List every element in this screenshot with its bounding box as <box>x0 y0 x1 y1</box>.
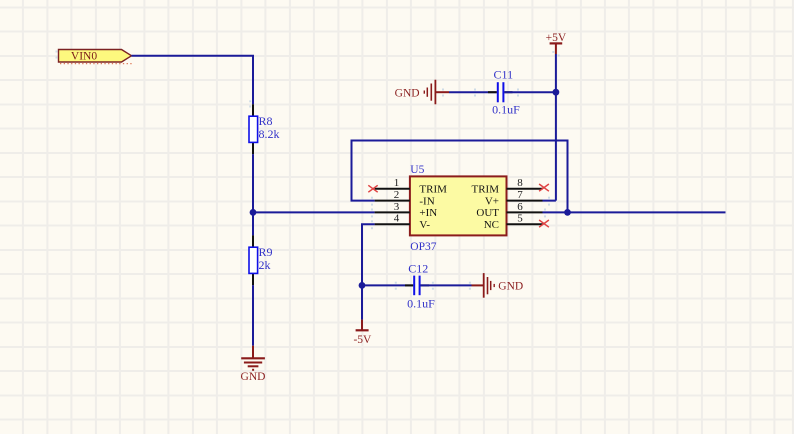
wire C12 to ground <box>421 284 472 286</box>
svg-text:OP37: OP37 <box>410 241 436 253</box>
no-connect X pin 1 <box>368 185 377 192</box>
wire node A to +IN <box>253 211 375 213</box>
pin 1 TRIM left <box>375 177 448 195</box>
svg-text:TRIM: TRIM <box>472 184 500 196</box>
resistor R8 <box>249 104 280 154</box>
wire node A to R9 <box>252 212 254 235</box>
power +5V <box>546 32 567 54</box>
svg-text:R8: R8 <box>259 114 273 128</box>
pin 4 V- <box>375 213 431 231</box>
wire V- to -5V rail <box>362 224 375 319</box>
svg-text:V+: V+ <box>485 195 499 207</box>
svg-text:8.2k: 8.2k <box>259 127 280 141</box>
no-connect X pin 5 <box>539 220 549 227</box>
grid snap markers <box>56 51 560 290</box>
pin 8 TRIM right <box>472 177 543 195</box>
capacitor C12 <box>405 262 435 311</box>
svg-text:VIN0: VIN0 <box>71 51 97 63</box>
svg-text:5: 5 <box>517 213 523 225</box>
svg-text:7: 7 <box>517 189 523 201</box>
svg-text:2: 2 <box>394 189 400 201</box>
svg-text:6: 6 <box>517 201 523 213</box>
power ground GND at C11 <box>395 80 449 105</box>
junction C11 to +5V rail <box>553 89 560 96</box>
wire GND to C11 <box>449 91 497 93</box>
pin 2 -IN <box>375 189 435 207</box>
svg-text:OUT: OUT <box>476 207 499 219</box>
wire -5V rail to C12 <box>362 284 413 286</box>
wire port to R8 <box>132 56 254 104</box>
svg-text:0.1uF: 0.1uF <box>492 102 520 116</box>
wire +5V rail to V+ <box>543 54 556 201</box>
port VIN0 <box>59 50 134 64</box>
no-connect X pin 8 <box>539 184 549 191</box>
svg-text:2k: 2k <box>259 258 271 272</box>
wire R9 to ground <box>252 285 254 346</box>
svg-text:NC: NC <box>484 219 499 231</box>
svg-text:U5: U5 <box>410 164 424 176</box>
svg-text:+IN: +IN <box>419 207 437 219</box>
pin 3 +IN <box>375 201 438 219</box>
pin 6 OUT <box>476 201 542 219</box>
svg-text:-5V: -5V <box>353 334 372 346</box>
svg-text:R9: R9 <box>259 245 273 259</box>
wire feedback -IN to OUT <box>352 141 568 213</box>
svg-text:1: 1 <box>394 177 400 189</box>
svg-text:GND: GND <box>498 281 523 293</box>
wire OUT to right <box>543 211 726 213</box>
svg-text:V-: V- <box>419 219 430 231</box>
svg-text:3: 3 <box>394 201 400 213</box>
svg-text:C11: C11 <box>494 68 514 82</box>
svg-text:4: 4 <box>394 213 400 225</box>
node A junction <box>250 209 257 216</box>
svg-text:0.1uF: 0.1uF <box>407 297 435 311</box>
svg-text:TRIM: TRIM <box>419 184 447 196</box>
op-amp U5 body <box>410 176 507 235</box>
power -5V <box>353 320 372 346</box>
junction feedback-OUT <box>564 209 571 216</box>
svg-text:GND: GND <box>395 87 420 99</box>
svg-text:C12: C12 <box>408 262 428 276</box>
pin 7 V+ <box>485 189 543 207</box>
power ground GND at C12 <box>472 273 524 298</box>
svg-text:8: 8 <box>517 177 523 189</box>
resistor R9 <box>249 235 273 285</box>
pin 5 NC <box>484 213 543 231</box>
ground GND earth symbol <box>241 346 266 383</box>
svg-text:GND: GND <box>241 371 266 383</box>
wire R8 to node A <box>252 154 254 212</box>
svg-text:-IN: -IN <box>419 195 434 207</box>
capacitor C11 <box>488 68 520 117</box>
wire C11 to +5V rail <box>504 91 556 93</box>
junction C12 to -5V rail <box>359 282 366 289</box>
